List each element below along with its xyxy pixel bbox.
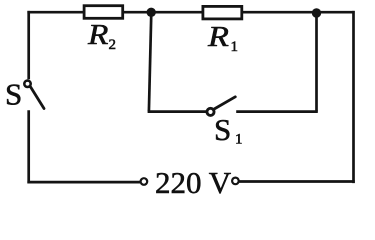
switch S (pivot circle and blade) <box>24 81 30 87</box>
wire S1 branch horizontal right <box>236 110 318 113</box>
node B junction dot <box>312 8 321 17</box>
wire branch vertical from node B down to S1 <box>315 13 318 112</box>
wire bottom left (bottom-left corner to left source terminal) <box>27 181 140 184</box>
svg-text:S: S <box>5 76 22 111</box>
svg-text:R: R <box>87 18 108 50</box>
svg-text:2: 2 <box>109 37 117 53</box>
wire right vertical (top-right corner to bottom-right corner) <box>352 11 355 183</box>
source right terminal circle <box>232 178 239 185</box>
node A junction dot <box>147 8 156 17</box>
wire branch vertical from node A down to S1 <box>149 12 151 111</box>
wire S1 branch horizontal left <box>148 110 206 113</box>
wire left vertical lower (switch S down to bottom-left corner) <box>27 110 30 183</box>
resistor R2 <box>84 6 123 19</box>
svg-text:R: R <box>207 20 229 52</box>
svg-text:S: S <box>214 112 231 147</box>
wire bottom right (right source terminal to bottom-right corner) <box>239 180 355 183</box>
wire top horizontal (left corner to right corner) <box>27 11 354 14</box>
switch S1 (pivot circle and blade) <box>207 108 214 115</box>
wire left vertical upper (top-left corner down to switch S) <box>27 11 30 79</box>
svg-text:1: 1 <box>235 132 243 148</box>
svg-text:220 V: 220 V <box>155 165 232 200</box>
resistor R1 <box>203 6 242 19</box>
source left terminal circle <box>141 178 148 185</box>
label R2 <box>87 18 108 50</box>
label R1 <box>207 20 229 52</box>
svg-text:1: 1 <box>231 39 239 55</box>
